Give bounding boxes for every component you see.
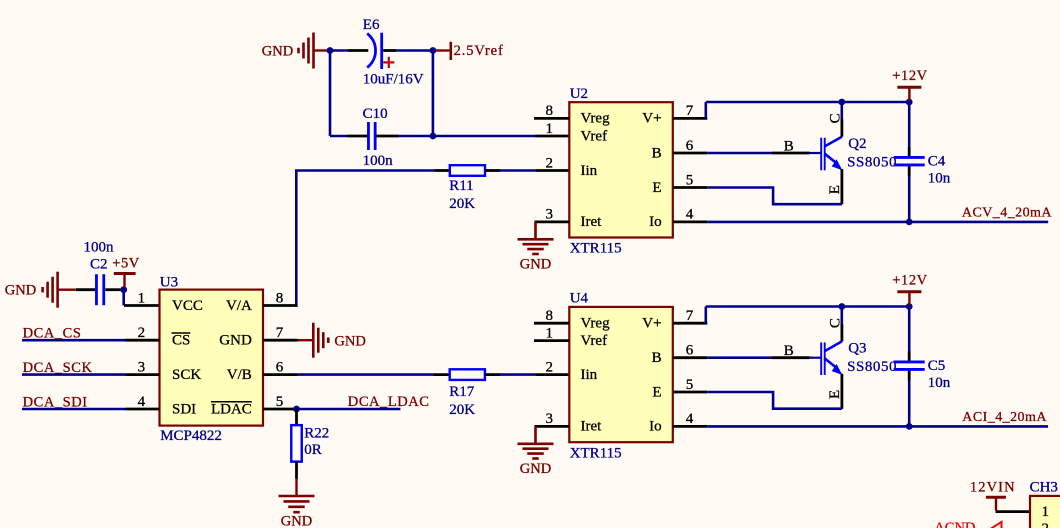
svg-text:Iin: Iin (581, 163, 598, 179)
svg-text:C10: C10 (363, 106, 388, 122)
svg-text:B: B (652, 145, 662, 161)
svg-text:100n: 100n (84, 239, 115, 255)
svg-text:R22: R22 (304, 426, 329, 442)
svg-text:1: 1 (1042, 504, 1050, 520)
svg-text:ACND: ACND (934, 520, 975, 528)
svg-text:7: 7 (686, 103, 694, 119)
svg-text:ACI_4_20mA: ACI_4_20mA (962, 410, 1047, 425)
svg-text:E: E (827, 185, 843, 194)
svg-text:E: E (652, 180, 661, 196)
svg-text:Iin: Iin (581, 367, 598, 383)
svg-text:5: 5 (686, 172, 694, 188)
svg-text:8: 8 (546, 103, 554, 119)
svg-text:Vref: Vref (581, 333, 608, 349)
svg-text:C5: C5 (928, 358, 946, 374)
svg-text:+5V: +5V (112, 255, 139, 271)
svg-text:2: 2 (546, 359, 554, 375)
svg-text:1: 1 (138, 290, 146, 306)
svg-text:CS: CS (172, 333, 190, 349)
svg-text:+12V: +12V (892, 273, 928, 289)
svg-text:C: C (828, 113, 844, 123)
svg-text:Vreg: Vreg (581, 316, 611, 332)
svg-text:Vreg: Vreg (581, 111, 611, 127)
svg-text:VCC: VCC (172, 298, 203, 314)
svg-text:2: 2 (138, 325, 146, 341)
svg-text:12VIN: 12VIN (970, 480, 1016, 496)
svg-text:GND: GND (520, 461, 551, 477)
svg-text:CH3: CH3 (1030, 480, 1058, 496)
svg-text:C2: C2 (90, 257, 108, 273)
svg-text:ACV_4_20mA: ACV_4_20mA (962, 206, 1052, 221)
svg-text:4: 4 (686, 411, 694, 427)
svg-text:+12V: +12V (892, 68, 928, 84)
svg-text:1: 1 (546, 121, 554, 137)
svg-text:V/A: V/A (226, 298, 252, 314)
svg-text:5: 5 (686, 377, 694, 393)
svg-text:4: 4 (138, 394, 146, 410)
svg-text:E: E (652, 384, 661, 400)
svg-text:1: 1 (546, 325, 554, 341)
svg-text:E: E (827, 390, 843, 399)
svg-text:Iret: Iret (581, 214, 603, 230)
svg-text:GND: GND (520, 257, 551, 273)
svg-text:5: 5 (276, 394, 284, 410)
svg-text:3: 3 (138, 359, 146, 375)
svg-text:MCP4822: MCP4822 (160, 428, 222, 444)
svg-text:SS8050: SS8050 (847, 359, 897, 375)
svg-text:Io: Io (649, 214, 662, 230)
svg-text:C: C (828, 318, 844, 328)
svg-text:R11: R11 (449, 178, 473, 194)
svg-text:B: B (652, 350, 662, 366)
svg-text:8: 8 (276, 290, 284, 306)
svg-text:Vref: Vref (581, 128, 608, 144)
svg-text:10uF/16V: 10uF/16V (363, 72, 424, 88)
svg-text:LDAC: LDAC (211, 401, 252, 417)
svg-text:XTR115: XTR115 (570, 241, 622, 257)
svg-text:0R: 0R (304, 442, 322, 458)
svg-text:V+: V+ (642, 111, 661, 127)
svg-text:SDI: SDI (172, 401, 196, 417)
svg-text:7: 7 (686, 308, 694, 324)
svg-text:V/B: V/B (227, 367, 252, 383)
svg-text:20K: 20K (449, 196, 475, 212)
svg-text:U4: U4 (570, 291, 589, 307)
svg-text:Iret: Iret (581, 419, 603, 435)
svg-text:2.5Vref: 2.5Vref (454, 43, 504, 59)
svg-text:Q2: Q2 (848, 136, 866, 152)
svg-text:Io: Io (649, 419, 662, 435)
svg-text:3: 3 (546, 411, 554, 427)
svg-text:SCK: SCK (172, 367, 201, 383)
svg-text:2: 2 (1042, 521, 1050, 528)
svg-text:10n: 10n (928, 170, 951, 186)
svg-text:V+: V+ (642, 316, 661, 332)
svg-text:10n: 10n (928, 375, 951, 391)
svg-text:SS8050: SS8050 (847, 155, 897, 171)
svg-text:8: 8 (546, 308, 554, 324)
svg-text:2: 2 (546, 155, 554, 171)
svg-text:GND: GND (219, 333, 252, 349)
svg-text:B: B (784, 343, 794, 359)
svg-text:B: B (784, 138, 794, 154)
svg-text:GND: GND (262, 43, 293, 59)
svg-text:E6: E6 (363, 17, 380, 33)
svg-text:XTR115: XTR115 (570, 445, 622, 461)
svg-text:7: 7 (276, 325, 284, 341)
svg-text:U2: U2 (570, 86, 588, 102)
svg-text:100n: 100n (363, 153, 394, 169)
svg-text:GND: GND (334, 334, 365, 350)
svg-text:C4: C4 (928, 153, 946, 169)
svg-text:6: 6 (686, 138, 694, 154)
svg-text:3: 3 (546, 207, 554, 223)
svg-text:GND: GND (281, 514, 312, 528)
svg-text:U3: U3 (160, 274, 178, 290)
svg-text:DCA_LDAC: DCA_LDAC (348, 394, 430, 410)
svg-text:GND: GND (5, 283, 36, 299)
svg-text:R17: R17 (449, 384, 475, 400)
svg-text:6: 6 (686, 343, 694, 359)
svg-text:6: 6 (276, 359, 284, 375)
svg-text:Q3: Q3 (848, 340, 866, 356)
svg-text:4: 4 (686, 207, 694, 223)
svg-text:20K: 20K (449, 402, 475, 418)
